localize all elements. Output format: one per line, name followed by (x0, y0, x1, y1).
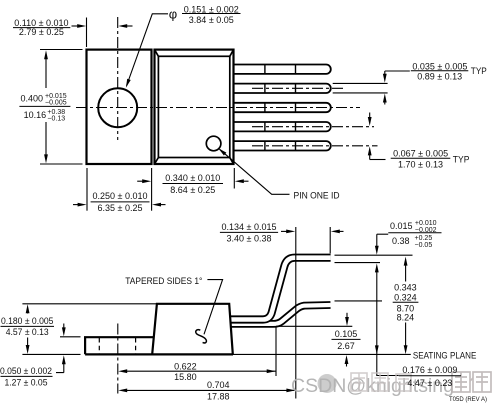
lead L2 (234, 84, 331, 93)
dim 0.622 (118, 369, 276, 373)
watermark CSDN (291, 372, 491, 397)
dim 0.176 (375, 263, 399, 375)
svg-text:−0.05: −0.05 (415, 242, 433, 249)
dim 0.704 (118, 389, 295, 393)
svg-text:2.67: 2.67 (337, 341, 355, 351)
svg-text:0.622: 0.622 (174, 361, 197, 371)
svg-text:−0.005: −0.005 (45, 99, 67, 106)
dim 0.105 (345, 313, 349, 367)
svg-text:TAPERED SIDES 1°: TAPERED SIDES 1° (125, 276, 203, 286)
side view: hole centerline (117, 324, 119, 394)
lead 4 centerline (252, 126, 374, 128)
svg-text:T05D (REV A): T05D (REV A) (449, 396, 487, 403)
svg-text:6.35 ± 0.25: 6.35 ± 0.25 (98, 203, 143, 213)
dim 0.250 (tab width) (73, 168, 166, 211)
svg-text:10.16: 10.16 (24, 110, 47, 120)
svg-text:0.176 ± 0.009: 0.176 ± 0.009 (402, 365, 457, 375)
lead L5 (234, 141, 331, 150)
svg-text:0.050 ± 0.002: 0.050 ± 0.002 (0, 366, 52, 376)
svg-text:φ: φ (169, 7, 177, 22)
side view: molded body outline (152, 304, 233, 354)
dim 0.343/0.324 (404, 257, 408, 355)
side view: hole hidden edges (99, 338, 135, 354)
svg-text:TYP: TYP (471, 66, 487, 76)
svg-text:3.40 ± 0.38: 3.40 ± 0.38 (227, 234, 272, 244)
svg-text:1.27 ± 0.05: 1.27 ± 0.05 (5, 377, 48, 387)
svg-text:4.57 ± 0.13: 4.57 ± 0.13 (6, 327, 49, 337)
svg-text:0.105: 0.105 (335, 329, 358, 339)
lead 2 centerline (252, 87, 346, 89)
pin one id leader (218, 148, 289, 194)
body inner outline (bevel) (155, 50, 234, 164)
svg-text:0.015: 0.015 (390, 221, 413, 231)
mounting hole (98, 88, 137, 127)
svg-text:0.400: 0.400 (21, 94, 44, 104)
main horizontal centerline (76, 107, 360, 109)
side view: body top edge extension (22, 303, 156, 305)
svg-text:8.64 ± 0.25: 8.64 ± 0.25 (170, 185, 215, 195)
svg-text:0.343: 0.343 (394, 283, 417, 293)
svg-text:0.250 ± 0.010: 0.250 ± 0.010 (93, 191, 148, 201)
svg-text:2.79 ± 0.25: 2.79 ± 0.25 (19, 27, 64, 37)
svg-text:0.89 ± 0.13: 0.89 ± 0.13 (417, 71, 462, 81)
svg-text:3.84 ± 0.05: 3.84 ± 0.05 (189, 15, 234, 25)
hole vertical centerline (117, 17, 119, 140)
svg-text:0.134 ± 0.015: 0.134 ± 0.015 (222, 222, 277, 232)
tab (mounting flange) outline (87, 50, 152, 164)
dim 0.180 (26, 304, 30, 354)
svg-text:0.067 ± 0.005: 0.067 ± 0.005 (393, 149, 448, 159)
svg-text:0.324: 0.324 (394, 293, 417, 303)
lead L4 (234, 122, 331, 131)
svg-text:4.47 ± 0.23: 4.47 ± 0.23 (407, 378, 452, 388)
svg-text:+0.010: +0.010 (415, 220, 437, 227)
svg-text:0.38: 0.38 (392, 236, 410, 246)
svg-text:0.180 ± 0.005: 0.180 ± 0.005 (1, 316, 54, 326)
svg-text:PIN ONE ID: PIN ONE ID (294, 190, 340, 200)
dim 0.050 (56, 324, 81, 373)
ext lines right of leads (335, 254, 413, 256)
lead L1 (234, 65, 331, 74)
tapered sides leader + squiggle (196, 280, 223, 343)
svg-text:0.035 ± 0.005: 0.035 ± 0.005 (412, 62, 467, 72)
lead 5 centerline (252, 145, 378, 147)
dim 0.134 (281, 230, 344, 234)
side view: bottom / seating plane line (85, 353, 233, 355)
dim 0.067 (lead pitch) (368, 113, 386, 160)
svg-text:−0.13: −0.13 (47, 115, 65, 122)
side view: seating plane extension left (22, 353, 80, 355)
svg-text:SEATING PLANE: SEATING PLANE (413, 350, 477, 360)
svg-text:TYP: TYP (453, 155, 470, 165)
side view: tab plate (85, 337, 154, 354)
svg-text:15.80: 15.80 (174, 372, 197, 382)
svg-text:17.88: 17.88 (207, 392, 230, 402)
body outer outline (155, 50, 234, 164)
lead L3 (234, 103, 331, 112)
dim 0.400 (tab height) (40, 50, 83, 165)
pin one ID circle (206, 136, 221, 151)
svg-text:1.70 ± 0.13: 1.70 ± 0.13 (398, 160, 443, 170)
svg-text:0.704: 0.704 (207, 380, 230, 390)
dim 0.035 (lead width) (333, 71, 410, 105)
dim 0.015 leader (375, 234, 388, 255)
dim phi 0.151 hole leader (126, 14, 168, 88)
side view: lead lower (bent slightly) (231, 305, 331, 324)
side view: lead upper (bent up) (231, 258, 331, 320)
svg-text:8.24: 8.24 (397, 313, 415, 323)
dim 0.340 (body width) (137, 168, 248, 211)
dim 0.110 +- 0.010 / 2.79 +- 0.25 (tab edge to hole center) (72, 18, 133, 48)
lead crimp tick marks (265, 65, 296, 151)
svg-text:0.340 ± 0.010: 0.340 ± 0.010 (165, 173, 220, 183)
